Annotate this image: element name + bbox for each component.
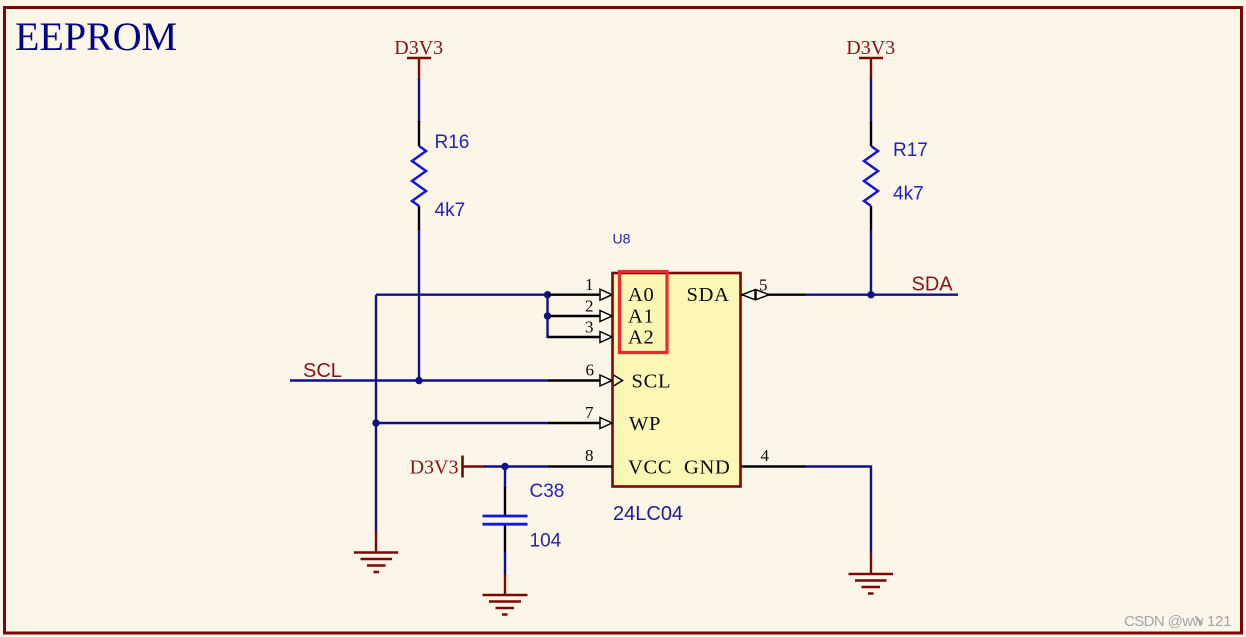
pin 5 SDA bidirectional: [687, 276, 807, 307]
ground 3: [849, 574, 894, 594]
svg-text:A1: A1: [628, 305, 654, 327]
svg-text:C38: C38: [530, 481, 565, 502]
svg-text:24LC04: 24LC04: [613, 503, 683, 525]
wire VCC horizontal: [484, 465, 548, 467]
svg-text:R16: R16: [435, 132, 470, 153]
svg-text:4k7: 4k7: [893, 184, 924, 205]
power port D3V3 left: [394, 37, 443, 80]
wire R16 to SCL net: [418, 230, 420, 381]
pin 2 A1: [548, 296, 654, 327]
pin 1 A0: [548, 275, 654, 306]
pin 8 VCC: [548, 446, 672, 479]
junction dot A1: [544, 312, 551, 319]
ground 1: [354, 553, 398, 573]
svg-text:EEPROM: EEPROM: [15, 14, 177, 59]
svg-text:SCL: SCL: [303, 360, 342, 382]
resistor R17: [864, 121, 878, 231]
svg-text:6: 6: [586, 361, 595, 380]
svg-text:7: 7: [585, 403, 594, 422]
svg-text:SDA: SDA: [912, 274, 954, 296]
wire SDA horizontal: [805, 294, 958, 296]
wire R17 to SDA net: [870, 230, 872, 295]
svg-text:SDA: SDA: [687, 284, 730, 306]
svg-text:3: 3: [585, 317, 594, 336]
wire GND pin4 to ground 3: [805, 467, 871, 554]
svg-text:U8: U8: [613, 231, 631, 247]
svg-text:D3V3: D3V3: [846, 37, 895, 59]
svg-text:VCC: VCC: [628, 457, 672, 479]
junction dot SDA/R17: [867, 291, 874, 298]
junction dot A0: [544, 291, 551, 298]
IC U8 body: [613, 273, 741, 487]
wire stub to ground 3: [870, 553, 872, 575]
svg-text:D3V3: D3V3: [394, 37, 443, 59]
wire A0 horizontal: [376, 294, 548, 296]
wire vertical A0-A2 tie: [546, 295, 549, 337]
svg-text:GND: GND: [684, 457, 731, 479]
power port D3V3 at VCC: [410, 456, 485, 479]
svg-text:8: 8: [585, 446, 594, 465]
junction dot WP: [372, 419, 379, 426]
wire ground vertical: [375, 295, 377, 532]
svg-text:A2: A2: [628, 326, 654, 348]
svg-text:4: 4: [761, 446, 770, 465]
svg-text:R17: R17: [893, 140, 928, 161]
svg-text:4k7: 4k7: [435, 200, 466, 221]
watermark: [1124, 613, 1231, 630]
wire stub to ground 2: [504, 574, 506, 596]
wire stub to ground 1: [375, 531, 377, 553]
svg-text:WP: WP: [629, 413, 661, 435]
resistor R16: [412, 121, 426, 231]
wire SCL horizontal: [290, 379, 548, 381]
svg-text:CSDN @ww: CSDN @ww: [1124, 613, 1204, 630]
svg-text:A0: A0: [628, 284, 654, 306]
pin 7 WP: [548, 403, 661, 435]
svg-text:SCL: SCL: [632, 371, 672, 393]
wire WP horizontal: [376, 422, 548, 424]
highlight box around A0-A2: [620, 272, 668, 353]
capacitor C38: [483, 487, 528, 553]
wire D3V3 to R17: [870, 79, 872, 122]
junction dot VCC/C38: [501, 463, 508, 470]
wire D3V3 to R16: [418, 79, 420, 122]
wire C38 to ground: [504, 552, 506, 575]
wire VCC to C38: [504, 467, 506, 489]
ground 2: [483, 595, 528, 615]
pin 6 SCL: [548, 361, 671, 393]
pin 4 GND: [684, 446, 806, 479]
svg-text:104: 104: [530, 531, 562, 552]
svg-text:121: 121: [1207, 613, 1231, 630]
svg-text:D3V3: D3V3: [410, 457, 459, 479]
svg-text:5: 5: [759, 276, 768, 295]
svg-text:2: 2: [585, 296, 594, 315]
power port D3V3 right: [846, 37, 895, 80]
svg-text:1: 1: [585, 275, 594, 294]
pin 3 A2: [548, 317, 654, 348]
junction dot R16/SCL: [415, 377, 422, 384]
